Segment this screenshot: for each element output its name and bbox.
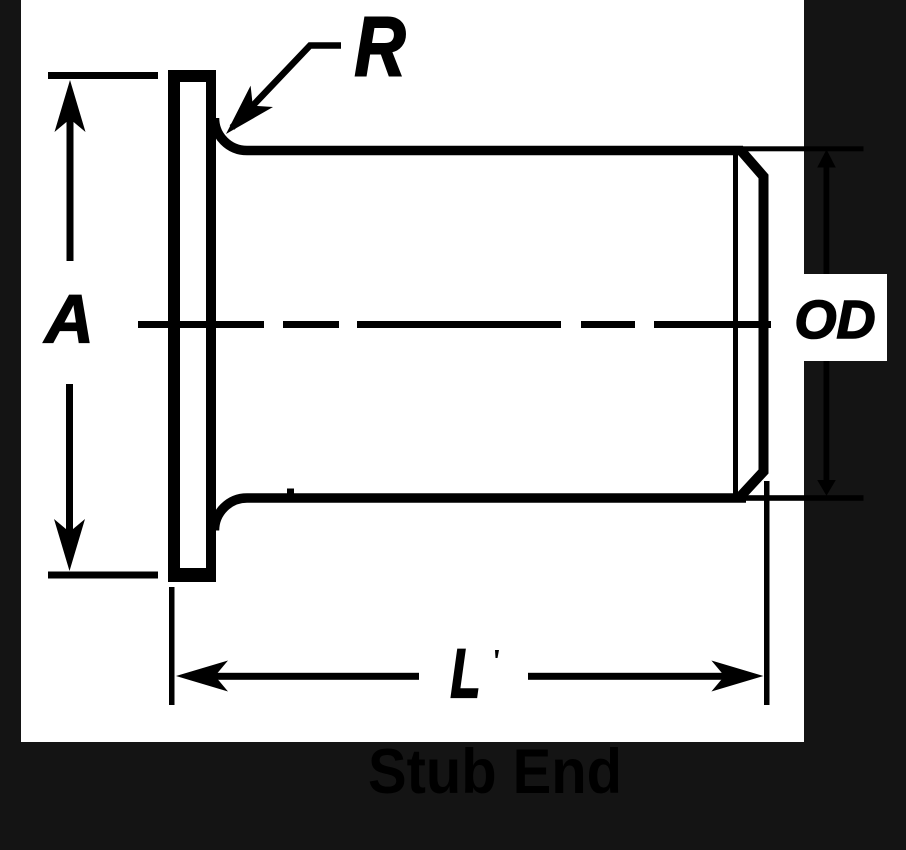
OD top extension tick bbox=[722, 146, 864, 151]
dimension A top tick bbox=[48, 72, 158, 79]
dimension A down arrowhead bbox=[54, 519, 85, 571]
dimension L left extension line bbox=[169, 587, 175, 705]
pipe bottom line with fillet bbox=[215, 498, 747, 531]
pipe top line with fillet bbox=[215, 118, 744, 151]
OD up arrowhead bbox=[817, 150, 836, 168]
pipe end face thin line bbox=[733, 150, 738, 498]
svg-text:Stub End: Stub End bbox=[368, 737, 622, 807]
flange (lap-joint ring) outer bbox=[168, 70, 216, 582]
white OD label box bbox=[804, 274, 887, 361]
dimension L right shaft bbox=[528, 673, 725, 680]
dimension L left shaft bbox=[214, 673, 419, 680]
OD bottom extension tick bbox=[722, 495, 864, 501]
dimension A bottom tick bbox=[48, 572, 158, 579]
svg-text:R: R bbox=[354, 1, 405, 94]
svg-text:L: L bbox=[451, 635, 481, 712]
dimension A upper shaft bbox=[67, 118, 74, 261]
dimension A lower shaft bbox=[66, 384, 73, 532]
svg-text:A: A bbox=[43, 281, 94, 358]
flange inner face bbox=[180, 82, 206, 568]
OD down arrowhead bbox=[817, 480, 836, 496]
dimension A up arrowhead bbox=[55, 80, 86, 132]
centerline dash 2 bbox=[283, 321, 339, 328]
centerline dash 4 bbox=[581, 321, 635, 328]
stray tick mark after L bbox=[495, 650, 499, 658]
centerline dash 3 bbox=[357, 321, 561, 328]
OD dimension lower shaft bbox=[824, 361, 830, 482]
centerline dash 1 bbox=[138, 321, 264, 328]
svg-text:OD: OD bbox=[795, 290, 876, 350]
OD dimension upper shaft bbox=[824, 165, 830, 274]
dimension L left arrowhead bbox=[176, 661, 228, 692]
dimension L right arrowhead bbox=[711, 661, 763, 692]
centerline dash 5 bbox=[654, 321, 771, 328]
dimension L right extension line bbox=[764, 481, 770, 705]
R leader line bbox=[232, 46, 341, 128]
white drawing area bbox=[21, 0, 804, 742]
artifact bump on pipe bottom line bbox=[287, 489, 294, 494]
pipe end bevel outline bbox=[739, 150, 764, 499]
R leader arrowhead bbox=[226, 86, 273, 134]
